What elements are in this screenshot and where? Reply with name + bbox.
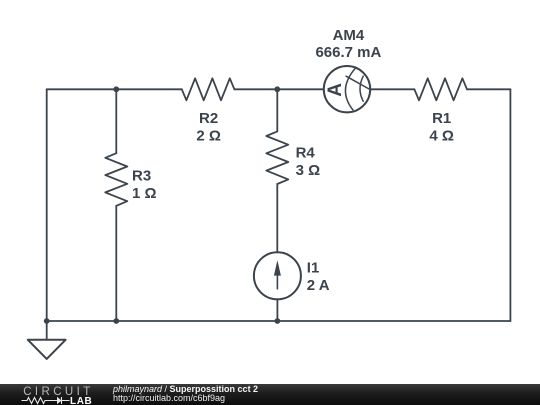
wire R4 to I1 [276, 184, 278, 252]
wire R4 branch upper [276, 89, 278, 131]
svg-text:A: A [325, 83, 346, 97]
wire right vertical rail [509, 89, 511, 321]
svg-text:2 A: 2 A [307, 277, 330, 294]
svg-text:LAB: LAB [70, 396, 92, 405]
resistor R3 [105, 153, 127, 206]
resistor R2 [182, 78, 235, 100]
node junction bottom R3 [113, 318, 119, 324]
node junction bottom ground [44, 318, 50, 324]
svg-text:AM4: AM4 [333, 27, 365, 44]
ground symbol [28, 340, 66, 359]
svg-text:R1: R1 [432, 110, 451, 127]
wire top rail mid segment [234, 88, 323, 90]
footer url line [113, 393, 225, 403]
svg-text:666.7 mA: 666.7 mA [315, 44, 381, 61]
ammeter AM4 scale arc outer [345, 68, 355, 110]
footer author/title line [113, 384, 258, 394]
svg-text:3 Ω: 3 Ω [296, 162, 321, 179]
footer bar [0, 384, 540, 405]
current source I1 arrow head [274, 260, 281, 275]
wire top rail left segment [47, 88, 182, 90]
svg-text:1 Ω: 1 Ω [132, 185, 157, 202]
svg-text:2 Ω: 2 Ω [196, 128, 221, 145]
wire R3 branch upper [115, 89, 117, 153]
resistor R4 [266, 131, 288, 184]
node junction top R3 [113, 86, 119, 92]
ammeter AM4 scale arc inner [360, 76, 363, 101]
wire top rail ammeter to R1 [370, 88, 414, 90]
svg-text:R4: R4 [296, 144, 316, 161]
wire left vertical rail [46, 89, 48, 321]
current source I1 [254, 252, 301, 299]
footer CircuitLab logo [20, 385, 98, 405]
svg-text:4 Ω: 4 Ω [429, 128, 454, 145]
svg-text:R2: R2 [199, 110, 218, 127]
wire top rail right segment [467, 88, 510, 90]
svg-text:I1: I1 [307, 260, 320, 277]
wire bottom rail [47, 320, 511, 322]
node junction bottom I1 [275, 318, 281, 324]
current source I1 arrow shaft [276, 264, 278, 289]
ammeter AM4 needle [346, 76, 370, 89]
wire ground stub [46, 321, 48, 340]
svg-text:R3: R3 [132, 167, 151, 184]
resistor R1 [414, 78, 467, 100]
ammeter AM4 [324, 66, 370, 112]
node junction top R4 [274, 86, 280, 92]
wire I1 to bottom rail [276, 299, 278, 321]
wire R3 branch lower [115, 206, 117, 321]
